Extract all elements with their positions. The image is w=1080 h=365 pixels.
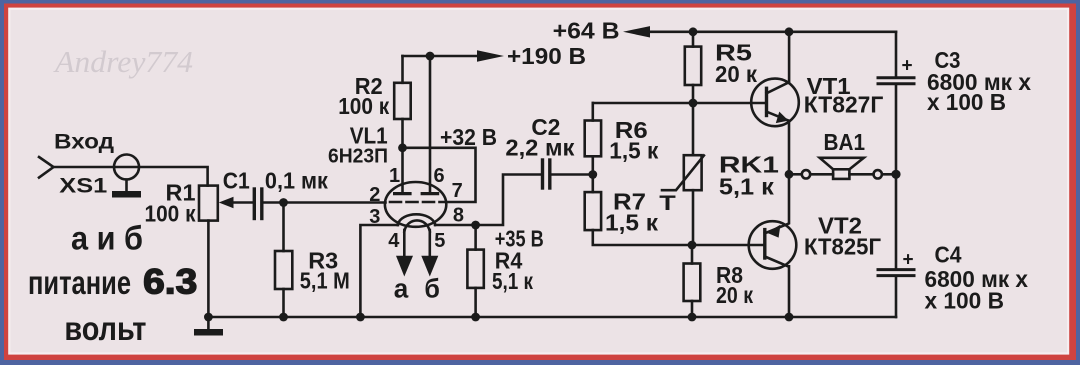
wire C1 to grid node xyxy=(264,201,386,204)
svg-text:+: + xyxy=(903,250,914,271)
resistor R3 xyxy=(275,203,292,318)
svg-text:С4: С4 xyxy=(935,242,962,268)
resistor R6 xyxy=(585,103,601,175)
svg-text:а: а xyxy=(394,273,409,303)
svg-text:6Н23П: 6Н23П xyxy=(328,146,388,168)
node R2 bottom xyxy=(398,143,407,152)
wire VT1 base line xyxy=(593,102,765,105)
resistor R2 xyxy=(394,56,411,148)
output node VT1/VT2 xyxy=(785,170,794,179)
node bus R8 xyxy=(688,313,697,322)
resistor R8 xyxy=(684,245,701,317)
node speaker right xyxy=(891,170,900,179)
svg-text:+64 В: +64 В xyxy=(553,18,620,44)
svg-text:0,1 мк: 0,1 мк xyxy=(265,168,328,194)
svg-text:20 к: 20 к xyxy=(715,61,757,87)
node C2-R6-R7 xyxy=(588,170,597,179)
main ground symbol xyxy=(194,317,223,336)
svg-text:+: + xyxy=(902,56,913,77)
transistor VT1 xyxy=(751,32,799,175)
svg-text:4: 4 xyxy=(388,230,400,252)
svg-text:х 100 В: х 100 В xyxy=(927,89,1006,115)
capacitor C3 xyxy=(878,32,914,175)
grid dashes xyxy=(390,201,444,204)
transistor VT2 xyxy=(749,174,797,317)
thermistor RK1 xyxy=(662,103,704,245)
svg-text:1,5 к: 1,5 к xyxy=(605,210,658,236)
anode 2 (pin 6) xyxy=(422,56,437,194)
svg-text:5,1 М: 5,1 М xyxy=(300,268,350,294)
node bus R3 xyxy=(279,313,288,322)
svg-text:5,1 к: 5,1 к xyxy=(719,174,774,200)
node pin8 R4 xyxy=(471,221,480,230)
capacitor C2 xyxy=(543,160,593,188)
svg-text:КТ825Г: КТ825Г xyxy=(804,234,881,260)
svg-text:100 к: 100 к xyxy=(338,93,389,119)
ground at XS1 xyxy=(125,180,128,192)
svg-text:7: 7 xyxy=(452,180,463,202)
cathode arc xyxy=(398,214,436,225)
svg-text:2: 2 xyxy=(369,184,380,206)
ground bus wire xyxy=(208,316,896,319)
svg-text:питание: питание xyxy=(28,264,131,301)
anode 1 (pin 1) xyxy=(395,148,410,194)
node bus VT2 xyxy=(785,313,794,322)
capacitor C4 xyxy=(878,174,914,317)
wiper arrow of R1 xyxy=(219,197,252,209)
wire pin8 cathode2 xyxy=(435,175,541,226)
resistor R4 xyxy=(467,225,483,317)
+190V rail xyxy=(403,50,505,61)
svg-text:20 к: 20 к xyxy=(716,282,753,308)
+64V rail xyxy=(623,26,896,37)
wire cathode pin3 to bus xyxy=(360,225,398,317)
node bus R1 xyxy=(204,313,213,322)
svg-text:3: 3 xyxy=(369,206,380,228)
node bus cathode xyxy=(356,313,365,322)
svg-text:5: 5 xyxy=(434,230,445,252)
svg-text:6.3: 6.3 xyxy=(143,263,197,302)
speaker BA1 xyxy=(789,158,896,179)
svg-text:1: 1 xyxy=(389,165,400,187)
svg-text:х 100 В: х 100 В xyxy=(925,288,1005,314)
wire pin7 to +32 node xyxy=(403,148,476,202)
svg-text:Т: Т xyxy=(659,192,676,215)
svg-text:б: б xyxy=(424,273,440,303)
resistor R1 (potentiometer) xyxy=(199,186,218,221)
node VT1 base R5 RK1 xyxy=(689,99,698,108)
connector circle XS1 xyxy=(114,155,139,180)
svg-text:+32 В: +32 В xyxy=(440,124,497,150)
capacitor C1 xyxy=(254,189,261,219)
node VT2 base xyxy=(688,241,697,250)
svg-text:КТ827Г: КТ827Г xyxy=(804,91,884,117)
arrow a xyxy=(396,256,413,277)
node bus R4 xyxy=(471,313,480,322)
resistor R5 xyxy=(685,32,701,103)
svg-text:Вход: Вход xyxy=(54,130,114,154)
svg-text:1,5 к: 1,5 к xyxy=(609,138,658,164)
svg-text:2,2 мк: 2,2 мк xyxy=(505,134,574,160)
svg-text:100 к: 100 к xyxy=(145,201,196,227)
arrow b xyxy=(421,256,438,277)
svg-text:Andrey774: Andrey774 xyxy=(53,44,193,79)
node grid1 xyxy=(279,198,288,207)
wire base line VT2 xyxy=(692,244,764,247)
svg-text:BA1: BA1 xyxy=(824,129,866,155)
wire R1 to ground bus xyxy=(207,221,210,317)
svg-text:вольт: вольт xyxy=(64,310,146,347)
svg-text:XS1: XS1 xyxy=(59,175,107,198)
heater arc pins 4,5 xyxy=(396,220,438,276)
svg-text:6: 6 xyxy=(434,165,445,187)
svg-text:8: 8 xyxy=(453,205,464,227)
svg-text:+190 В: +190 В xyxy=(507,43,586,69)
svg-text:а и б: а и б xyxy=(71,220,143,257)
svg-text:С1: С1 xyxy=(223,168,250,194)
wire input to R1 xyxy=(54,167,208,186)
tube VL1 envelope xyxy=(385,182,446,227)
resistor R7 xyxy=(585,175,692,246)
svg-text:5,1 к: 5,1 к xyxy=(492,268,533,294)
input fork XS1 xyxy=(39,155,208,198)
